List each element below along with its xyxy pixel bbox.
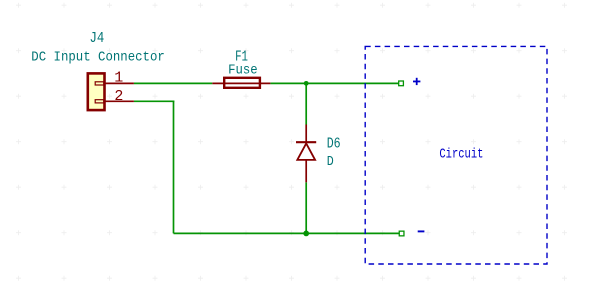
wire pin2 horizontal <box>134 100 174 102</box>
junction bottom <box>303 231 309 237</box>
wire diode top <box>305 83 307 124</box>
connector J4 pin 2 contact <box>95 100 104 103</box>
svg-text:D6: D6 <box>327 136 341 153</box>
junction top <box>304 81 309 86</box>
svg-text:Circuit: Circuit <box>439 147 483 163</box>
svg-text:D: D <box>327 154 334 170</box>
wire left vertical <box>173 101 175 234</box>
svg-text:J4: J4 <box>90 30 105 47</box>
plus terminal label <box>413 78 420 85</box>
svg-text:Fuse: Fuse <box>228 62 258 78</box>
wire fuse to plus terminal <box>270 82 398 84</box>
wire diode bottom <box>305 182 307 233</box>
connector J4 pin 1 contact <box>95 82 104 85</box>
svg-text:2: 2 <box>114 88 123 105</box>
minus terminal label <box>418 230 425 232</box>
wire end square plus <box>399 81 404 86</box>
fuse F1 lead <box>212 82 270 84</box>
diode D6 cathode bar <box>296 141 316 143</box>
connector J4 body <box>88 73 105 110</box>
wire bottom horizontal <box>174 232 400 234</box>
pin 1 lead <box>105 82 134 84</box>
svg-text:1: 1 <box>114 69 123 86</box>
svg-text:DC Input Connector: DC Input Connector <box>31 50 165 66</box>
diode D6 top lead <box>305 125 307 144</box>
fuse F1 body <box>224 78 260 88</box>
wire end square minus <box>399 231 404 236</box>
wire pin1 to fuse <box>134 82 212 84</box>
pin 2 lead <box>105 100 134 102</box>
diode D6 triangle <box>297 143 315 160</box>
diode D6 bottom lead <box>305 160 307 182</box>
circuit block dashed box <box>365 46 547 264</box>
